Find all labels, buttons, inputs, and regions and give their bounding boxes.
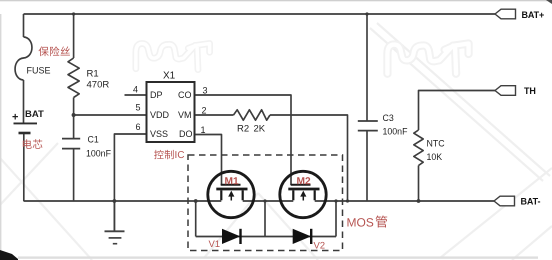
watermark logo 2 xyxy=(387,44,468,74)
resistor R1 zigzag xyxy=(68,58,79,98)
label MOS (of MOS管) xyxy=(347,218,355,226)
svg-text:R2: R2 xyxy=(237,124,249,135)
wire: left branch top (to fuse) xyxy=(23,14,25,37)
wire: NTC bottom lead xyxy=(418,166,420,202)
svg-text:10K: 10K xyxy=(427,152,443,162)
dashed MOS box xyxy=(188,155,343,251)
svg-text:2: 2 xyxy=(202,106,207,116)
wire: C1 top lead xyxy=(73,115,75,139)
ground stem xyxy=(113,201,115,231)
svg-text:100nF: 100nF xyxy=(86,149,112,159)
wire: diode row left drop xyxy=(195,201,197,237)
svg-text:X1: X1 xyxy=(163,71,176,82)
svg-text:R1: R1 xyxy=(87,69,99,80)
svg-text:DP: DP xyxy=(150,90,163,100)
svg-text:FUSE: FUSE xyxy=(27,66,51,76)
svg-text:TH: TH xyxy=(524,86,536,96)
CJK labels drawn as paths xyxy=(23,46,387,227)
svg-text:470R: 470R xyxy=(87,80,110,91)
svg-text:2K: 2K xyxy=(254,124,266,135)
wire: battery minus down to bottom rail xyxy=(23,134,25,201)
wire: bottom rail xyxy=(24,200,495,202)
svg-text:CO: CO xyxy=(178,90,192,100)
connector TH xyxy=(495,86,516,96)
capacitor C1 plates xyxy=(62,139,80,149)
IC pin labels xyxy=(133,85,208,139)
svg-text:DO: DO xyxy=(179,129,193,139)
svg-text:VM: VM xyxy=(178,110,192,120)
svg-text:C1: C1 xyxy=(88,135,99,145)
label 电芯 (battery cell, red) xyxy=(23,139,32,149)
svg-text:6: 6 xyxy=(136,122,141,132)
wire: VM line pin2 to R2 xyxy=(195,114,234,116)
label 保险丝 (fuse, red) xyxy=(39,46,49,56)
wire: R1 branch from top rail xyxy=(73,14,75,58)
resistor R2 zigzag xyxy=(234,110,271,120)
svg-text:C3: C3 xyxy=(383,113,394,123)
connector BAT+ xyxy=(495,9,516,19)
thermistor NTC zigzag xyxy=(414,130,423,166)
svg-text:BAT: BAT xyxy=(25,109,44,120)
ground symbol xyxy=(105,231,125,243)
svg-text:5: 5 xyxy=(136,103,141,113)
watermark logo 1 xyxy=(136,43,210,69)
wire: C3 bottom lead xyxy=(366,131,368,201)
svg-text:1: 1 xyxy=(201,125,206,135)
connector BAT- xyxy=(494,196,515,206)
wire: DP stub pin4 xyxy=(125,94,147,96)
MOSFET M2 xyxy=(280,171,326,217)
wire: TH line xyxy=(419,91,496,131)
wire: R1 bottom to VDD node xyxy=(73,98,75,116)
capacitor C3 plates xyxy=(358,121,378,131)
svg-text:NTC: NTC xyxy=(427,139,446,149)
svg-text:100nF: 100nF xyxy=(383,126,409,136)
MOSFET M1 xyxy=(208,171,254,217)
label 控制IC (control IC, red) xyxy=(154,150,164,159)
IC X1 box xyxy=(147,82,195,142)
label M1 xyxy=(225,177,232,184)
label V2 xyxy=(314,242,320,249)
wire: VSS line pin6 xyxy=(114,134,146,231)
wire: diode row horizontal xyxy=(196,236,336,238)
fuse F1 S-curve xyxy=(15,37,32,80)
label IC (of 控制IC) xyxy=(174,151,177,158)
svg-text:VDD: VDD xyxy=(150,110,170,120)
svg-text:3: 3 xyxy=(203,86,208,96)
wire: diode row right drop xyxy=(335,201,337,237)
text labels xyxy=(12,66,266,135)
wire: C1 bottom lead xyxy=(73,149,75,201)
svg-text:BAT-: BAT- xyxy=(521,197,541,207)
wire: C3 branch from top rail xyxy=(366,14,368,121)
svg-text:+: + xyxy=(12,112,18,124)
wire: VDD line xyxy=(74,114,147,116)
svg-text:4: 4 xyxy=(133,85,138,95)
battery BAT plates xyxy=(14,123,38,133)
photo edge artifacts xyxy=(0,0,552,1)
diode V2 xyxy=(293,229,312,244)
wire: CO line pin3 to M2 gate xyxy=(195,95,292,185)
label V1 xyxy=(209,240,215,247)
wire: top rail BAT+ xyxy=(24,13,496,15)
wire: DO line pin1 to M1 gate xyxy=(195,135,222,186)
wire: R2 right to BAT- rail xyxy=(270,115,348,201)
svg-text:VSS: VSS xyxy=(150,129,168,139)
wire: diode row middle drop xyxy=(264,201,266,237)
diode V1 xyxy=(222,229,241,244)
label 管 (of MOS管, red) xyxy=(376,216,388,228)
terminal labels xyxy=(521,10,545,207)
wire: fuse to battery xyxy=(23,80,25,123)
svg-text:BAT+: BAT+ xyxy=(522,10,545,20)
label M2 xyxy=(297,177,304,184)
